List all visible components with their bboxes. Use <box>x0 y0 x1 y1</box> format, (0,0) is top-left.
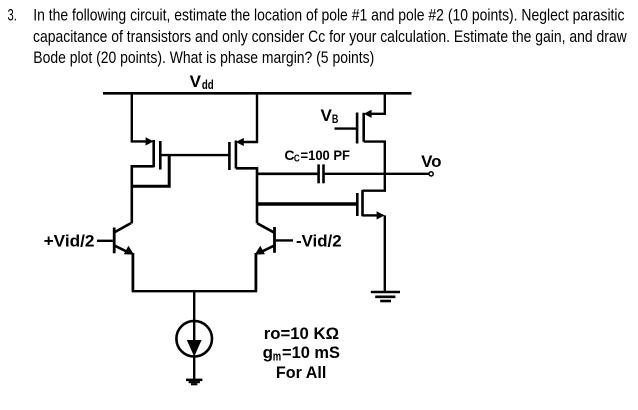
ground (tail, solid stepped) <box>186 379 202 386</box>
transistor Q2 (right input) <box>255 223 275 254</box>
pmos M5 (VB cascode) <box>357 110 372 144</box>
ground (output stage) <box>371 292 400 301</box>
svg-text:-Vid/2: -Vid/2 <box>296 231 342 250</box>
pmos M3 (diode-connected mirror) <box>146 137 161 169</box>
wire Vdd to M4 source <box>242 94 257 142</box>
wire M6 source to ground <box>363 214 378 216</box>
ro gm values text <box>263 324 340 382</box>
wire Q1 emitter down <box>131 253 134 292</box>
wire M3 gate to M4 gate <box>161 154 229 156</box>
svg-text:+Vid/2: +Vid/2 <box>44 231 95 250</box>
node A: wire M4 drain to Cc <box>257 172 317 175</box>
node Vo terminal <box>429 172 433 176</box>
svg-text:ro=10 KΩ: ro=10 KΩ <box>264 324 339 343</box>
wire Q2 emitter down <box>254 253 257 292</box>
Vdd rail <box>103 92 412 95</box>
transistor Q1 (left input) <box>114 223 134 254</box>
svg-text:In the following circuit, esti: In the following circuit, estimate the l… <box>33 6 625 25</box>
wire Vdd to M5 source <box>370 94 385 114</box>
pmos M4 (mirror output) <box>229 138 243 170</box>
nmos M6 (output) <box>357 190 384 220</box>
svg-text:Vo: Vo <box>421 152 442 171</box>
wire M3 drain down to Q1 collector <box>132 166 154 223</box>
current source I1 <box>176 321 212 357</box>
wire Vdd to M3 source <box>132 94 147 141</box>
svg-text:For All: For All <box>276 363 326 382</box>
svg-text:B: B <box>332 112 339 126</box>
svg-text:V: V <box>321 106 333 125</box>
wire tail node <box>132 290 257 292</box>
wire Q2 base to -Vid/2 <box>276 239 293 241</box>
svg-text:m: m <box>273 350 281 364</box>
svg-text:V: V <box>190 72 202 91</box>
wire +Vid/2 to Q1 base <box>97 240 113 242</box>
wire VB to M5 gate <box>335 127 358 129</box>
wire tail to current source <box>193 291 195 321</box>
wire current source to ground <box>193 356 195 378</box>
svg-text:C: C <box>294 153 300 165</box>
capacitor Cc <box>319 164 324 183</box>
svg-text:=100 PF: =100 PF <box>301 147 351 163</box>
svg-text:Bode plot (20 points). What is: Bode plot (20 points). What is phase mar… <box>33 48 374 67</box>
wire M4 drain down to Q2 collector <box>236 168 257 223</box>
wire Cc to Vo <box>325 173 429 175</box>
problem statement text <box>8 6 628 67</box>
svg-text:3.: 3. <box>8 6 17 25</box>
wire M6 drain to output node <box>363 175 385 191</box>
wire M5 drain to output node <box>364 142 385 174</box>
wire diode connection gate-drain of M3 <box>132 155 169 186</box>
svg-text:capacitance of transistors and: capacitance of transistors and only cons… <box>33 27 627 46</box>
wire M4 drain to M6 gate (thick) <box>257 202 357 206</box>
wire M6 source drop <box>384 215 386 291</box>
svg-text:=10 mS: =10 mS <box>282 343 340 362</box>
svg-text:g: g <box>263 343 273 362</box>
svg-text:dd: dd <box>202 78 214 92</box>
